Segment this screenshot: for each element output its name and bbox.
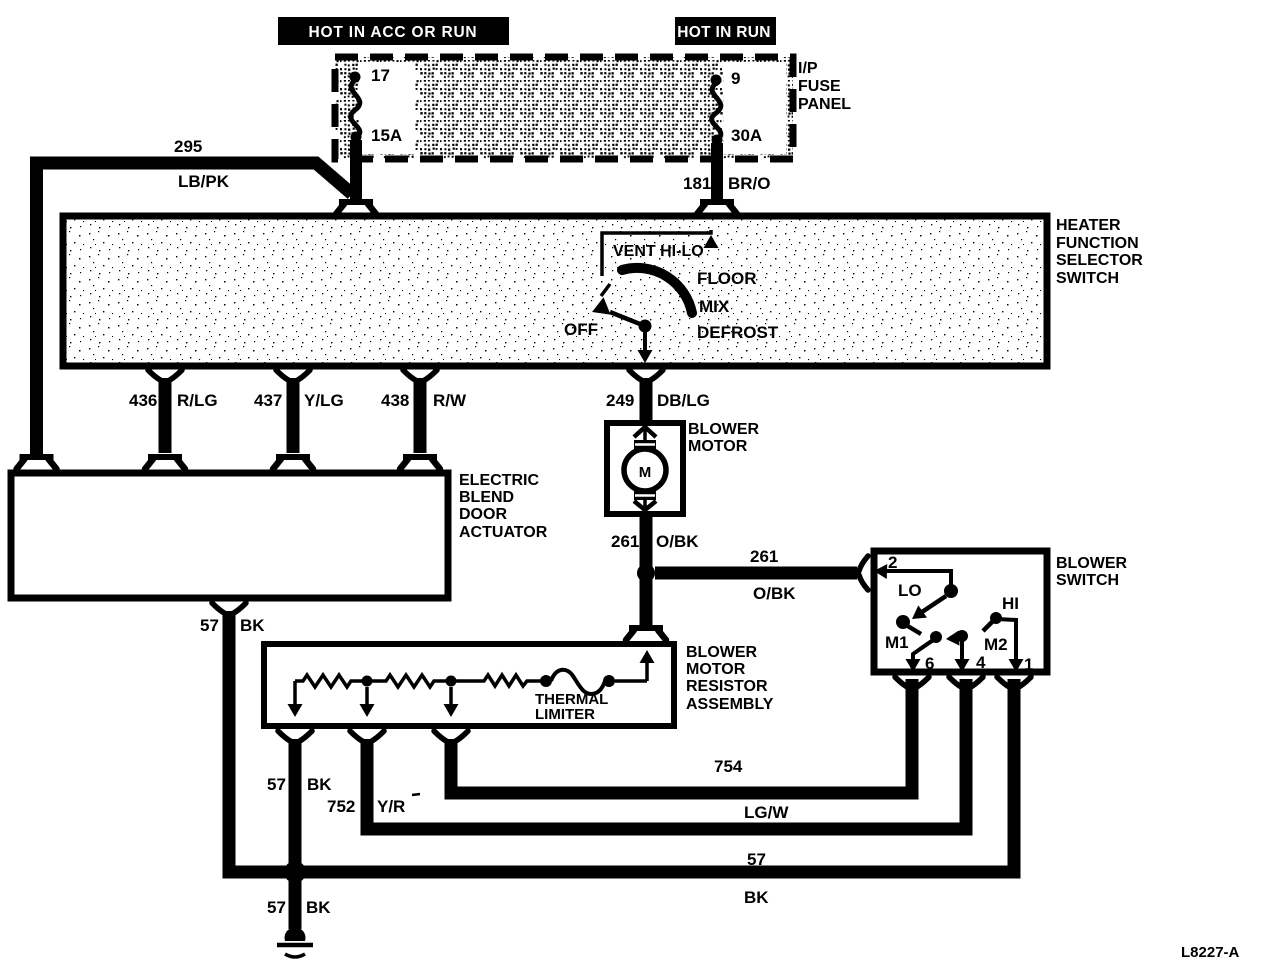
label THERMAL LIMITER <box>535 691 608 723</box>
svg-text:BLOWER: BLOWER <box>686 644 758 661</box>
svg-text:30A: 30A <box>731 126 762 145</box>
wire 752 Y/R (resistor M1 tap to blower switch pin 4) <box>327 679 966 829</box>
resistor R2 <box>372 675 450 687</box>
svg-text:MOTOR: MOTOR <box>688 438 748 455</box>
blower switch HI contact and wire to pin 1 <box>983 612 1024 672</box>
svg-text:BK: BK <box>306 898 331 917</box>
switch wiper arm with arrow toward OFF <box>588 297 645 326</box>
svg-text:LIMITER: LIMITER <box>535 706 595 723</box>
svg-text:ACTUATOR: ACTUATOR <box>459 524 548 541</box>
svg-text:57: 57 <box>200 616 219 635</box>
svg-text:HOT IN ACC OR RUN: HOT IN ACC OR RUN <box>309 24 478 41</box>
resistor tap wire to pin (right) <box>444 687 459 717</box>
connector: wire 261 into resistor assembly <box>626 628 666 640</box>
thermal limiter <box>551 670 605 694</box>
connector: heater switch output to wire 249 <box>629 370 663 381</box>
node: thermal limiter left <box>540 675 552 687</box>
label HEATER FUNCTION SELECTOR SWITCH <box>1056 217 1143 287</box>
switch wiper output wire (down to terminal) <box>638 332 653 363</box>
node: ground junction 57 <box>284 861 306 883</box>
svg-text:DEFROST: DEFROST <box>697 323 779 342</box>
blower motor resistor assembly box <box>264 644 674 726</box>
label BLOWER MOTOR <box>688 421 760 455</box>
svg-text:BR/O: BR/O <box>728 174 771 193</box>
blower motor box <box>607 423 683 514</box>
resistor tap wire to pin (middle) <box>360 687 375 717</box>
ground symbol <box>277 927 313 957</box>
svg-text:6: 6 <box>925 654 934 673</box>
wire 437 Y/LG <box>254 378 344 453</box>
connector: blower switch pin 1 <box>997 677 1031 688</box>
connector: resistor assembly pin to wire 57 <box>278 731 312 742</box>
blower switch contact node A <box>944 584 958 598</box>
svg-text:OFF: OFF <box>564 320 598 339</box>
svg-text:295: 295 <box>174 137 202 156</box>
wire 295 LB/PK (fuse 17 to heater switch and blend door actuator) <box>30 137 356 456</box>
wire 57 BK (actuator ground path, bottom bus to blower switch pin 1) <box>200 611 1014 907</box>
svg-text:BK: BK <box>240 616 265 635</box>
heater function selector switch box <box>63 216 1047 366</box>
svg-text:57: 57 <box>267 775 286 794</box>
wire 261 O/BK (motor output) <box>611 513 699 568</box>
svg-text:MOTOR: MOTOR <box>686 661 746 678</box>
svg-text:437: 437 <box>254 391 282 410</box>
svg-text:PANEL: PANEL <box>798 96 851 113</box>
connector: heater switch output to wire 438 <box>403 370 437 381</box>
node: R2/R3 junction <box>446 676 457 687</box>
svg-text:261: 261 <box>611 532 639 551</box>
svg-text:I/P: I/P <box>798 60 818 77</box>
svg-text:SELECTOR: SELECTOR <box>1056 252 1143 269</box>
label BLOWER SWITCH <box>1056 555 1128 589</box>
fuse F9 30A <box>711 69 763 146</box>
svg-text:FLOOR: FLOOR <box>697 269 757 288</box>
blower switch contact node B <box>896 615 910 629</box>
connector: blower switch pin 4 <box>949 677 983 688</box>
wire 436 R/LG <box>129 378 218 453</box>
svg-text:438: 438 <box>381 391 409 410</box>
svg-text:L8227-A: L8227-A <box>1181 944 1240 961</box>
svg-text:17: 17 <box>371 66 390 85</box>
connector: wire 295 into blend door actuator <box>17 457 57 469</box>
svg-text:754: 754 <box>714 757 743 776</box>
blower switch box <box>874 551 1047 672</box>
node: junction of wire 261 <box>637 564 655 582</box>
connector: wire 261 into blower switch <box>859 556 868 590</box>
wire 249 DB/LG <box>606 378 710 424</box>
blower switch M1 contact and wire to pin 6 <box>906 631 943 672</box>
label BLOWER MOTOR RESISTOR ASSEMBLY <box>686 644 774 713</box>
svg-text:O/BK: O/BK <box>656 532 699 551</box>
svg-text:9: 9 <box>731 69 740 88</box>
connector: wire 181 into heater switch <box>697 202 737 214</box>
blower motor M symbol <box>624 427 666 510</box>
svg-text:M1: M1 <box>885 633 909 652</box>
svg-text:Y/R: Y/R <box>377 797 405 816</box>
svg-text:HOT IN RUN: HOT IN RUN <box>677 24 770 41</box>
connector: resistor assembly pin to wire 752 <box>350 731 384 742</box>
svg-text:RESISTOR: RESISTOR <box>686 678 768 695</box>
blower switch wiper arm (LO) <box>908 596 946 625</box>
svg-text:181: 181 <box>683 174 711 193</box>
svg-text:15A: 15A <box>371 126 402 145</box>
svg-text:SWITCH: SWITCH <box>1056 270 1119 287</box>
label I/P FUSE PANEL <box>798 60 851 113</box>
resistor input wire (from 261) with arrow up <box>640 650 655 681</box>
connector: wire 438 into blend door actuator <box>400 457 440 469</box>
I/P fuse panel box (dashed) <box>335 57 793 159</box>
svg-text:ASSEMBLY: ASSEMBLY <box>686 696 774 713</box>
svg-text:BLOWER: BLOWER <box>688 421 760 438</box>
svg-text:1: 1 <box>1024 655 1033 674</box>
svg-text:BLOWER: BLOWER <box>1056 555 1128 572</box>
wire 57 BK (resistor to ground junction) <box>267 739 332 864</box>
svg-text:57: 57 <box>747 850 766 869</box>
connector: wire 437 into blend door actuator <box>273 457 313 469</box>
connector: resistor assembly pin to wire 754 <box>434 731 468 742</box>
svg-text:4: 4 <box>976 653 986 672</box>
svg-text:LB/PK: LB/PK <box>178 172 230 191</box>
svg-text:R/W: R/W <box>433 391 467 410</box>
wire 57 BK (junction to ground) <box>267 881 331 929</box>
wire: thermal limiter to output <box>615 679 647 683</box>
svg-text:FUSE: FUSE <box>798 78 841 95</box>
svg-text:LO: LO <box>898 581 922 600</box>
power label HOT IN ACC OR RUN <box>278 17 509 45</box>
switch rotary arc <box>622 268 692 313</box>
connector: actuator output to wire 57 <box>212 603 246 614</box>
svg-text:FUNCTION: FUNCTION <box>1056 235 1139 252</box>
resistor tap wire to pin (left, full resistance) <box>288 681 303 717</box>
connector: heater switch output to wire 437 <box>276 370 310 381</box>
switch wiper pivot node <box>639 320 652 333</box>
connector: blower switch pin 6 <box>895 677 929 688</box>
svg-text:249: 249 <box>606 391 634 410</box>
label ELECTRIC BLEND DOOR ACTUATOR <box>459 472 548 541</box>
wire 261 vertical to resistor assembly <box>640 579 653 627</box>
svg-text:261: 261 <box>750 547 778 566</box>
svg-text:MIX: MIX <box>699 297 730 316</box>
switch internal wire to VENT HI-LO contact <box>602 230 719 276</box>
node: thermal limiter right <box>603 675 615 687</box>
svg-text:M2: M2 <box>984 635 1008 654</box>
connector: wire 436 into blend door actuator <box>145 457 185 469</box>
svg-text:M: M <box>639 464 652 481</box>
switch wiper dashed segment <box>601 284 610 296</box>
electric blend door actuator box <box>11 473 448 598</box>
svg-text:57: 57 <box>267 898 286 917</box>
svg-text:R/LG: R/LG <box>177 391 218 410</box>
wire 261 O/BK (horizontal run to blower switch) <box>655 547 857 603</box>
blower switch wiper stub from node B <box>906 625 921 634</box>
svg-text:Y/LG: Y/LG <box>304 391 344 410</box>
power label HOT IN RUN <box>675 17 776 45</box>
svg-text:SWITCH: SWITCH <box>1056 572 1119 589</box>
svg-text:HEATER: HEATER <box>1056 217 1121 234</box>
svg-text:BLEND: BLEND <box>459 489 514 506</box>
wire 754 LG/W (resistor M2 tap to blower switch pin 6) <box>451 679 912 822</box>
resistor R1 <box>295 675 365 687</box>
connector: heater switch output to wire 436 <box>148 370 182 381</box>
blower switch M2 contact and wire to pin 4 <box>945 630 969 672</box>
connector: wire 295 into heater switch <box>336 202 376 214</box>
svg-text:VENT HI-LO: VENT HI-LO <box>613 243 704 260</box>
node: R1/R2 junction <box>362 676 373 687</box>
svg-text:ELECTRIC: ELECTRIC <box>459 472 539 489</box>
svg-text:436: 436 <box>129 391 157 410</box>
blower switch pin 2 input wire <box>874 553 951 586</box>
svg-text:LG/W: LG/W <box>744 803 789 822</box>
svg-text:DOOR: DOOR <box>459 506 507 523</box>
svg-text:O/BK: O/BK <box>753 584 796 603</box>
svg-text:BK: BK <box>744 888 769 907</box>
svg-text:DB/LG: DB/LG <box>657 391 710 410</box>
wire 181 BR/O (fuse 9 to heater switch) <box>683 143 771 201</box>
wire 438 R/W <box>381 378 467 453</box>
svg-text:HI: HI <box>1002 594 1019 613</box>
svg-text:752: 752 <box>327 797 355 816</box>
fuse F17 15A <box>350 66 403 145</box>
svg-text:2: 2 <box>888 553 897 572</box>
svg-text:BK: BK <box>307 775 332 794</box>
resistor R3 <box>456 675 546 686</box>
